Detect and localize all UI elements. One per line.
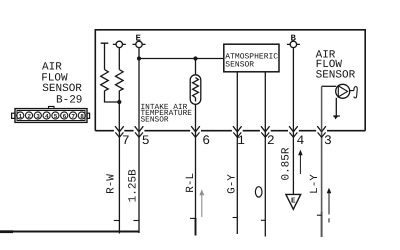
svg-text:1.25B: 1.25B bbox=[128, 169, 140, 202]
wire label O bbox=[255, 187, 262, 197]
air flow sensor triangle bbox=[338, 86, 347, 97]
ground triangle at pin 4 bbox=[286, 194, 301, 209]
resistor R-left terminal stub bbox=[101, 43, 109, 69]
pin 7 arrow bbox=[115, 126, 124, 132]
sensor emitter arrowhead bbox=[334, 116, 339, 120]
svg-text:7: 7 bbox=[122, 133, 130, 148]
wire E horizontal to atmospheric sensor bbox=[139, 58, 224, 60]
wire atmos leg to pin 2 bbox=[264, 72, 266, 131]
wire pin 5 drop bbox=[138, 132, 140, 233]
resistor R-right terminal circle bbox=[116, 41, 122, 47]
svg-text:SENSOR: SENSOR bbox=[141, 116, 169, 125]
connector left tab bbox=[12, 113, 15, 118]
svg-text:B: B bbox=[290, 33, 296, 43]
svg-text:2: 2 bbox=[27, 113, 31, 120]
svg-text:R-W: R-W bbox=[106, 174, 118, 194]
pin 1 arrow bbox=[233, 126, 242, 132]
svg-text:4: 4 bbox=[45, 113, 49, 120]
signal arrow up beside L-Y wire bbox=[328, 193, 330, 223]
connector top tab bbox=[49, 106, 55, 108]
svg-text:B-29: B-29 bbox=[56, 94, 82, 106]
sensor emitter lead bbox=[333, 98, 340, 116]
wire element to pin 3 bbox=[321, 86, 323, 130]
connector pin digits bbox=[19, 113, 85, 120]
svg-text:8: 8 bbox=[80, 113, 84, 120]
terminal B circle bbox=[290, 41, 296, 47]
label ATMOSPHERIC SENSOR bbox=[225, 53, 278, 70]
label AIR FLOW SENSOR (right) bbox=[316, 50, 356, 82]
svg-text:6: 6 bbox=[63, 113, 67, 120]
label AIR FLOW SENSOR B-29 (left) bbox=[41, 61, 82, 106]
svg-text:L-Y: L-Y bbox=[309, 174, 321, 194]
svg-text:7: 7 bbox=[71, 113, 75, 120]
atmospheric sensor box bbox=[224, 44, 279, 72]
wire pin 7 drop bbox=[118, 132, 120, 234]
air flow sensor assembly box B-29 outline bbox=[95, 30, 365, 131]
svg-text:G-Y: G-Y bbox=[226, 174, 238, 194]
wire pin 6 drop (R-L) bbox=[195, 132, 197, 219]
junction tick pin6 wire bbox=[190, 217, 195, 219]
junction dot E line left bbox=[137, 56, 141, 60]
junction tick pin7 wire bbox=[114, 220, 120, 222]
junction tick pin5 wire bbox=[134, 220, 140, 222]
label INTAKE AIR TEMPERATURE SENSOR bbox=[141, 103, 193, 125]
box bottom edge segments with pin gaps bbox=[95, 130, 365, 132]
signal arrow up beside R-L wire (gray) bbox=[201, 195, 203, 218]
pin 4 arrow bbox=[289, 126, 298, 132]
wire temp sensor to pin 6 bbox=[195, 104, 197, 130]
connector B-29 body bbox=[12, 106, 90, 122]
svg-text:3: 3 bbox=[324, 133, 332, 148]
terminal E circle bbox=[136, 41, 142, 47]
svg-text:2: 2 bbox=[267, 133, 275, 148]
svg-text:SENSOR: SENSOR bbox=[316, 69, 356, 81]
svg-text:E: E bbox=[291, 198, 296, 206]
resistor R-left zigzag bbox=[101, 70, 109, 91]
air flow sensor element circle bbox=[336, 84, 350, 98]
pin 5 arrow bbox=[135, 126, 144, 132]
junction dot resistor bottom bbox=[117, 100, 121, 104]
junction tick pin3 wire bbox=[317, 214, 322, 216]
svg-text:E: E bbox=[135, 33, 141, 43]
svg-text:R-L: R-L bbox=[185, 173, 197, 193]
wire atmos leg to pin 1 bbox=[236, 72, 238, 131]
resistor R-right zigzag bbox=[116, 48, 124, 91]
wire pin 2 drop (O) bbox=[264, 132, 266, 237]
junction dot temp sensor tap bbox=[193, 56, 197, 60]
svg-text:SENSOR: SENSOR bbox=[42, 83, 82, 95]
svg-text:3: 3 bbox=[36, 113, 40, 120]
pin 6 arrow bbox=[191, 126, 200, 132]
connector pin circles bbox=[17, 112, 24, 119]
svg-text:1: 1 bbox=[19, 113, 23, 120]
signal arrow up beside 0.85R wire bbox=[299, 155, 301, 175]
svg-text:6: 6 bbox=[202, 133, 210, 148]
wire pin 1 drop (G-Y) bbox=[236, 132, 238, 234]
junction tick pin2 wire bbox=[261, 219, 265, 221]
pin inner chevrons below box edge bbox=[115, 132, 325, 137]
wire temp sensor top bbox=[195, 59, 197, 75]
wire E vertical to pin 5 bbox=[138, 48, 140, 131]
ground bus wire bottom left bbox=[0, 231, 139, 233]
svg-text:1: 1 bbox=[237, 133, 245, 148]
svg-text:5: 5 bbox=[142, 133, 150, 148]
pin 3 arrow bbox=[317, 126, 326, 132]
connector right tab bbox=[87, 113, 90, 118]
intake air temperature sensor capsule bbox=[190, 75, 201, 105]
wire R-right to pin 7 bbox=[118, 91, 120, 131]
wire pin 3 drop (L-Y) bbox=[321, 132, 323, 213]
pin 2 arrow bbox=[261, 126, 270, 132]
wire into sensor element bbox=[322, 85, 337, 87]
wire R-left bottom to junction bbox=[105, 91, 120, 102]
pin numbers bbox=[122, 133, 332, 148]
svg-text:5: 5 bbox=[54, 113, 58, 120]
junction tick pin1 wire bbox=[233, 217, 238, 219]
sensor output squiggle bbox=[350, 87, 358, 98]
wire pin 4 drop (0.85R) bbox=[292, 132, 294, 195]
svg-text:4: 4 bbox=[297, 133, 305, 148]
svg-text:SENSOR: SENSOR bbox=[225, 60, 254, 69]
wire B vertical to pin 4 bbox=[292, 48, 294, 131]
svg-text:0.85R: 0.85R bbox=[281, 147, 293, 180]
